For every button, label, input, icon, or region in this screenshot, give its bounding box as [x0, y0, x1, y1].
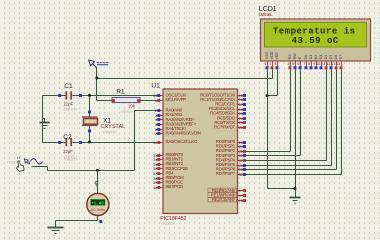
svg-text:14: 14 [337, 62, 341, 66]
wire: OSC2 row from crystal rail to U1 pin 14 [90, 142, 158, 144]
U1 pin 30 (RD7/PSP7) [216, 171, 246, 177]
svg-text:C1: C1 [64, 83, 73, 90]
wire: VDD stub to +5V corner [272, 70, 274, 79]
X1 pin state squares [88, 111, 91, 133]
LCD pin 8 (D1) [309, 55, 314, 70]
svg-text:40: 40 [153, 186, 157, 190]
svg-text:12: 12 [327, 62, 331, 66]
junction: crystal rail / OSC2 row [88, 141, 91, 144]
svg-text:3: 3 [275, 62, 277, 66]
U1 pin 20 (RD1/PSP1) [216, 144, 246, 149]
svg-text:22pF: 22pF [64, 102, 74, 107]
LCD pin 4 (RS) [288, 54, 293, 70]
svg-text:2: 2 [270, 62, 272, 66]
wire: VEE short drop [277, 70, 279, 96]
svg-text:11: 11 [322, 62, 326, 66]
LCD pin 10 (D3) [317, 55, 323, 70]
svg-text:25: 25 [239, 121, 243, 125]
wire: D6 to RD6 [245, 70, 337, 170]
ground (voltmeter) [48, 227, 64, 229]
svg-text:<TEXT>: <TEXT> [64, 158, 77, 162]
wire: VSS ground run [268, 188, 296, 190]
svg-text:34: 34 [153, 158, 157, 162]
svg-text:8: 8 [309, 62, 311, 66]
svg-text:U1: U1 [151, 82, 160, 89]
LCD pin 9 (D2) [314, 55, 319, 70]
U1 pin 16 (RC1/T1OSI/CCP2A) [200, 97, 246, 102]
svg-text:RA5/AN4/SS/LVDIN: RA5/AN4/SS/LVDIN [166, 131, 201, 136]
LCD screen [265, 22, 367, 47]
svg-text:26: 26 [239, 126, 243, 130]
svg-text:D1: D1 [309, 55, 313, 60]
wire: OSC1 row from crystal rail to U1 pin 13 [90, 95, 158, 97]
U1 pin 2 (RA0/AN0) [155, 108, 183, 113]
wire: sine source lead [32, 167, 48, 171]
svg-text:RB7/PGD: RB7/PGD [166, 184, 184, 189]
svg-text:10: 10 [239, 199, 243, 203]
svg-text:5: 5 [293, 62, 295, 66]
svg-text:43.59 oC: 43.59 oC [292, 36, 339, 46]
junction: RW/ground run [294, 187, 297, 190]
U1 pin 40 (RB7/PGD) [153, 184, 183, 190]
U1 pin 36 (RB3/CCP2B) [153, 166, 188, 171]
svg-text:17: 17 [239, 103, 243, 107]
U1 pin 38 (RB5/PGM) [153, 175, 184, 181]
svg-text:22: 22 [239, 154, 243, 158]
signal source sine wave [31, 159, 43, 165]
wire: C2 right lead [73, 142, 90, 144]
svg-text:30: 30 [239, 173, 243, 177]
svg-text:9: 9 [239, 194, 241, 198]
LCD LM016L body [261, 19, 371, 61]
svg-text:LM016L: LM016L [259, 12, 274, 17]
svg-text:29: 29 [239, 168, 243, 172]
LCD pin 13 (D6) [332, 55, 338, 70]
crystal X1 [82, 117, 98, 126]
power label +5V (blue dashes) [97, 62, 109, 65]
wire: C1 right lead [73, 95, 90, 97]
signal source arrow glyph [24, 159, 29, 164]
LCD pin 14 (D7) [337, 55, 343, 70]
U1 pin 10 (RE2/CS/AN7) [208, 197, 246, 203]
svg-text:RD7/PSP7: RD7/PSP7 [216, 171, 236, 176]
svg-text:6: 6 [298, 62, 300, 66]
svg-text:10: 10 [317, 62, 321, 66]
wire: C1 left lead [43, 95, 66, 97]
signal source hand cursor [17, 157, 24, 172]
svg-text:D7: D7 [339, 55, 343, 60]
U1 pin 18 (RC3/SCK/SCL) [209, 106, 246, 112]
LCD pin 7 (D0) [304, 55, 309, 70]
svg-text:20: 20 [239, 145, 243, 149]
svg-text:<TEXT>: <TEXT> [120, 110, 135, 114]
svg-text:+1.40: +1.40 [91, 203, 104, 207]
wire: RA0 riser [135, 111, 158, 171]
svg-text:1: 1 [265, 62, 267, 66]
svg-text:VSS: VSS [265, 52, 269, 60]
resistor R1 [112, 97, 140, 102]
capacitor C1 [65, 91, 72, 99]
wire: VSS long drop to ground run [267, 70, 269, 189]
U1 pin 26 (RC7/RX/DT) [214, 125, 246, 130]
junction: crystal rail / OSC1 row [88, 94, 91, 97]
svg-text:CRYSTAL: CRYSTAL [101, 124, 126, 130]
U1 pin 8 (RE0/RD/AN5) [208, 188, 246, 193]
wire: D5 to RD5 [245, 70, 332, 166]
svg-text:<TEXT>: <TEXT> [160, 222, 175, 226]
ground (LCD) [290, 197, 301, 199]
voltmeter negative pin state square [99, 220, 102, 223]
C2 pin state squares [58, 141, 82, 144]
svg-text:PIC18F452: PIC18F452 [160, 216, 186, 222]
U1 pin 34 (RB1/INT1) [153, 157, 184, 162]
wire: voltmeter top lead [97, 171, 99, 195]
wire: voltmeter bottom lead [56, 216, 98, 228]
svg-text:RA6/OSC2/CLKO: RA6/OSC2/CLKO [166, 139, 198, 144]
svg-text:R1: R1 [116, 88, 125, 95]
U1 pin 28 (RD5/PSP5) [216, 162, 246, 168]
svg-text:37: 37 [153, 172, 157, 176]
svg-text:C2: C2 [63, 134, 72, 141]
wire: R1 right lead [141, 100, 158, 102]
svg-text:D4: D4 [324, 55, 328, 60]
svg-text:27: 27 [239, 159, 243, 163]
wire: D4 to RD4 [245, 70, 327, 161]
LCD pin 12 (D5) [327, 55, 333, 70]
U1 pin 39 (RB6/PGC) [153, 180, 183, 185]
LCD pin 3 (VEE) [275, 52, 280, 70]
power +5V arrow [89, 60, 97, 68]
svg-text:RS: RS [288, 54, 292, 60]
LCD pin 5 (RW) [293, 53, 298, 70]
svg-text:AC Volts: AC Volts [91, 208, 106, 212]
junction: +5V tee [96, 77, 99, 80]
U1 pin 19 (RD0/PSP0) [216, 139, 246, 145]
svg-text:VDD: VDD [270, 51, 274, 59]
svg-text:23: 23 [239, 112, 243, 116]
wire: RS to RD2 [245, 70, 291, 152]
wire: +5V vertical to R1 [96, 68, 98, 101]
LCD pin 6 (E) [298, 56, 303, 69]
U1 pin 3 (RA1/AN1) [155, 112, 183, 118]
U1 pin 6 (RA4/T0CKI) [155, 126, 185, 132]
wire: VSS-VEE jog [268, 95, 278, 97]
wire: crystal vertical rail [89, 96, 91, 143]
U1 pin 15 (RC0/T1OSO/T1CKI) [200, 92, 246, 98]
U1 pin 37 (RB4) [153, 170, 174, 175]
wire: ground stub [295, 189, 297, 198]
svg-text:36: 36 [153, 167, 157, 171]
svg-text:RE2/CS/AN7: RE2/CS/AN7 [212, 197, 236, 202]
R1 pin state squares [112, 99, 140, 102]
ground (crystal caps) [40, 119, 50, 129]
U1 pin 9 (RE1/WR/AN6) [208, 192, 246, 197]
svg-text:<TEXT>: <TEXT> [103, 131, 118, 135]
svg-text:14: 14 [153, 141, 157, 145]
svg-text:4: 4 [155, 118, 157, 122]
svg-text:2: 2 [155, 109, 157, 113]
wire: R1 left lead [97, 100, 113, 102]
U1 pin 21 (RD2/PSP2) [216, 148, 246, 154]
svg-text:1: 1 [155, 99, 157, 103]
U1 pin 35 (RB2/INT2) [153, 161, 184, 167]
svg-text:D6: D6 [334, 55, 338, 60]
U1 pin 13 (OSC1/CLKI) [153, 92, 186, 98]
microcontroller U1 body [163, 89, 238, 214]
U1 pin 1 (MCLR/VPP) [155, 97, 186, 103]
svg-text:4: 4 [288, 62, 290, 66]
U1 pin 24 (RC5/SDO) [217, 115, 246, 121]
svg-text:D2: D2 [314, 55, 318, 60]
svg-text:D0: D0 [304, 55, 308, 60]
svg-text:22pF: 22pF [63, 149, 73, 154]
capacitor C2 [65, 138, 72, 146]
svg-text:5: 5 [155, 123, 157, 127]
U1 pin 17 (RC2/CCP1) [215, 102, 246, 107]
svg-text:MCLR/VPP: MCLR/VPP [166, 97, 187, 102]
svg-text:10k: 10k [128, 104, 136, 109]
wire: D7 to RD7 [245, 70, 342, 175]
U1 pin 29 (RD6/PSP6) [216, 167, 246, 172]
svg-text:7: 7 [304, 62, 306, 66]
svg-text:<TEXT>: <TEXT> [63, 107, 78, 111]
wire: left rail joining C1 and C2 [42, 96, 44, 143]
U1 pin 23 (RC4/SDI/SDA) [210, 111, 246, 116]
svg-text:7: 7 [155, 132, 157, 136]
junction: VSS/jog [266, 94, 269, 97]
C1 pin state squares [58, 94, 82, 97]
wire: +5V horizontal to LCD VDD [97, 78, 273, 80]
LCD pin 11 (D4) [322, 55, 328, 70]
wire: E to RD3 [245, 70, 301, 156]
voltmeter probe marker [95, 182, 97, 187]
junction: voltmeter tap [96, 169, 99, 172]
U1 pin 14 (RA6/OSC2/CLKO) [153, 139, 198, 145]
svg-text:8: 8 [239, 189, 241, 193]
svg-text:16: 16 [239, 98, 243, 102]
svg-text:13: 13 [332, 62, 336, 66]
svg-text:39: 39 [153, 181, 157, 185]
svg-text:9: 9 [314, 62, 316, 66]
wire: C2 left lead [43, 142, 66, 144]
svg-text:D5: D5 [329, 55, 333, 60]
U1 pin 4 (RA2/AN2/VREF-) [155, 117, 196, 122]
U1 pin 27 (RD4/PSP4) [216, 157, 246, 162]
voltmeter (AC Volts) [87, 193, 109, 215]
U1 pin 25 (RC6/TX/CK) [214, 120, 246, 125]
svg-text:VEE: VEE [275, 52, 279, 60]
LCD pin 1 (VSS) [265, 52, 270, 70]
U1 pin 7 (RA5/AN4/SS/LVDIN) [155, 131, 201, 136]
svg-text:RW: RW [293, 53, 297, 60]
svg-text:D3: D3 [319, 55, 323, 60]
wire: RW drop to ground [295, 70, 297, 189]
U1 pin 5 (RA3/AN3/VREF+) [155, 121, 197, 126]
U1 pin 22 (RD3/PSP3) [216, 153, 246, 158]
wire: RA0 horizontal run [48, 170, 135, 172]
LCD pin 2 (VDD) [270, 51, 275, 69]
U1 pin 33 (RB0/INT0) [153, 152, 184, 158]
svg-text:13: 13 [153, 94, 157, 98]
svg-text:RC7/RX/DT: RC7/RX/DT [214, 125, 235, 130]
